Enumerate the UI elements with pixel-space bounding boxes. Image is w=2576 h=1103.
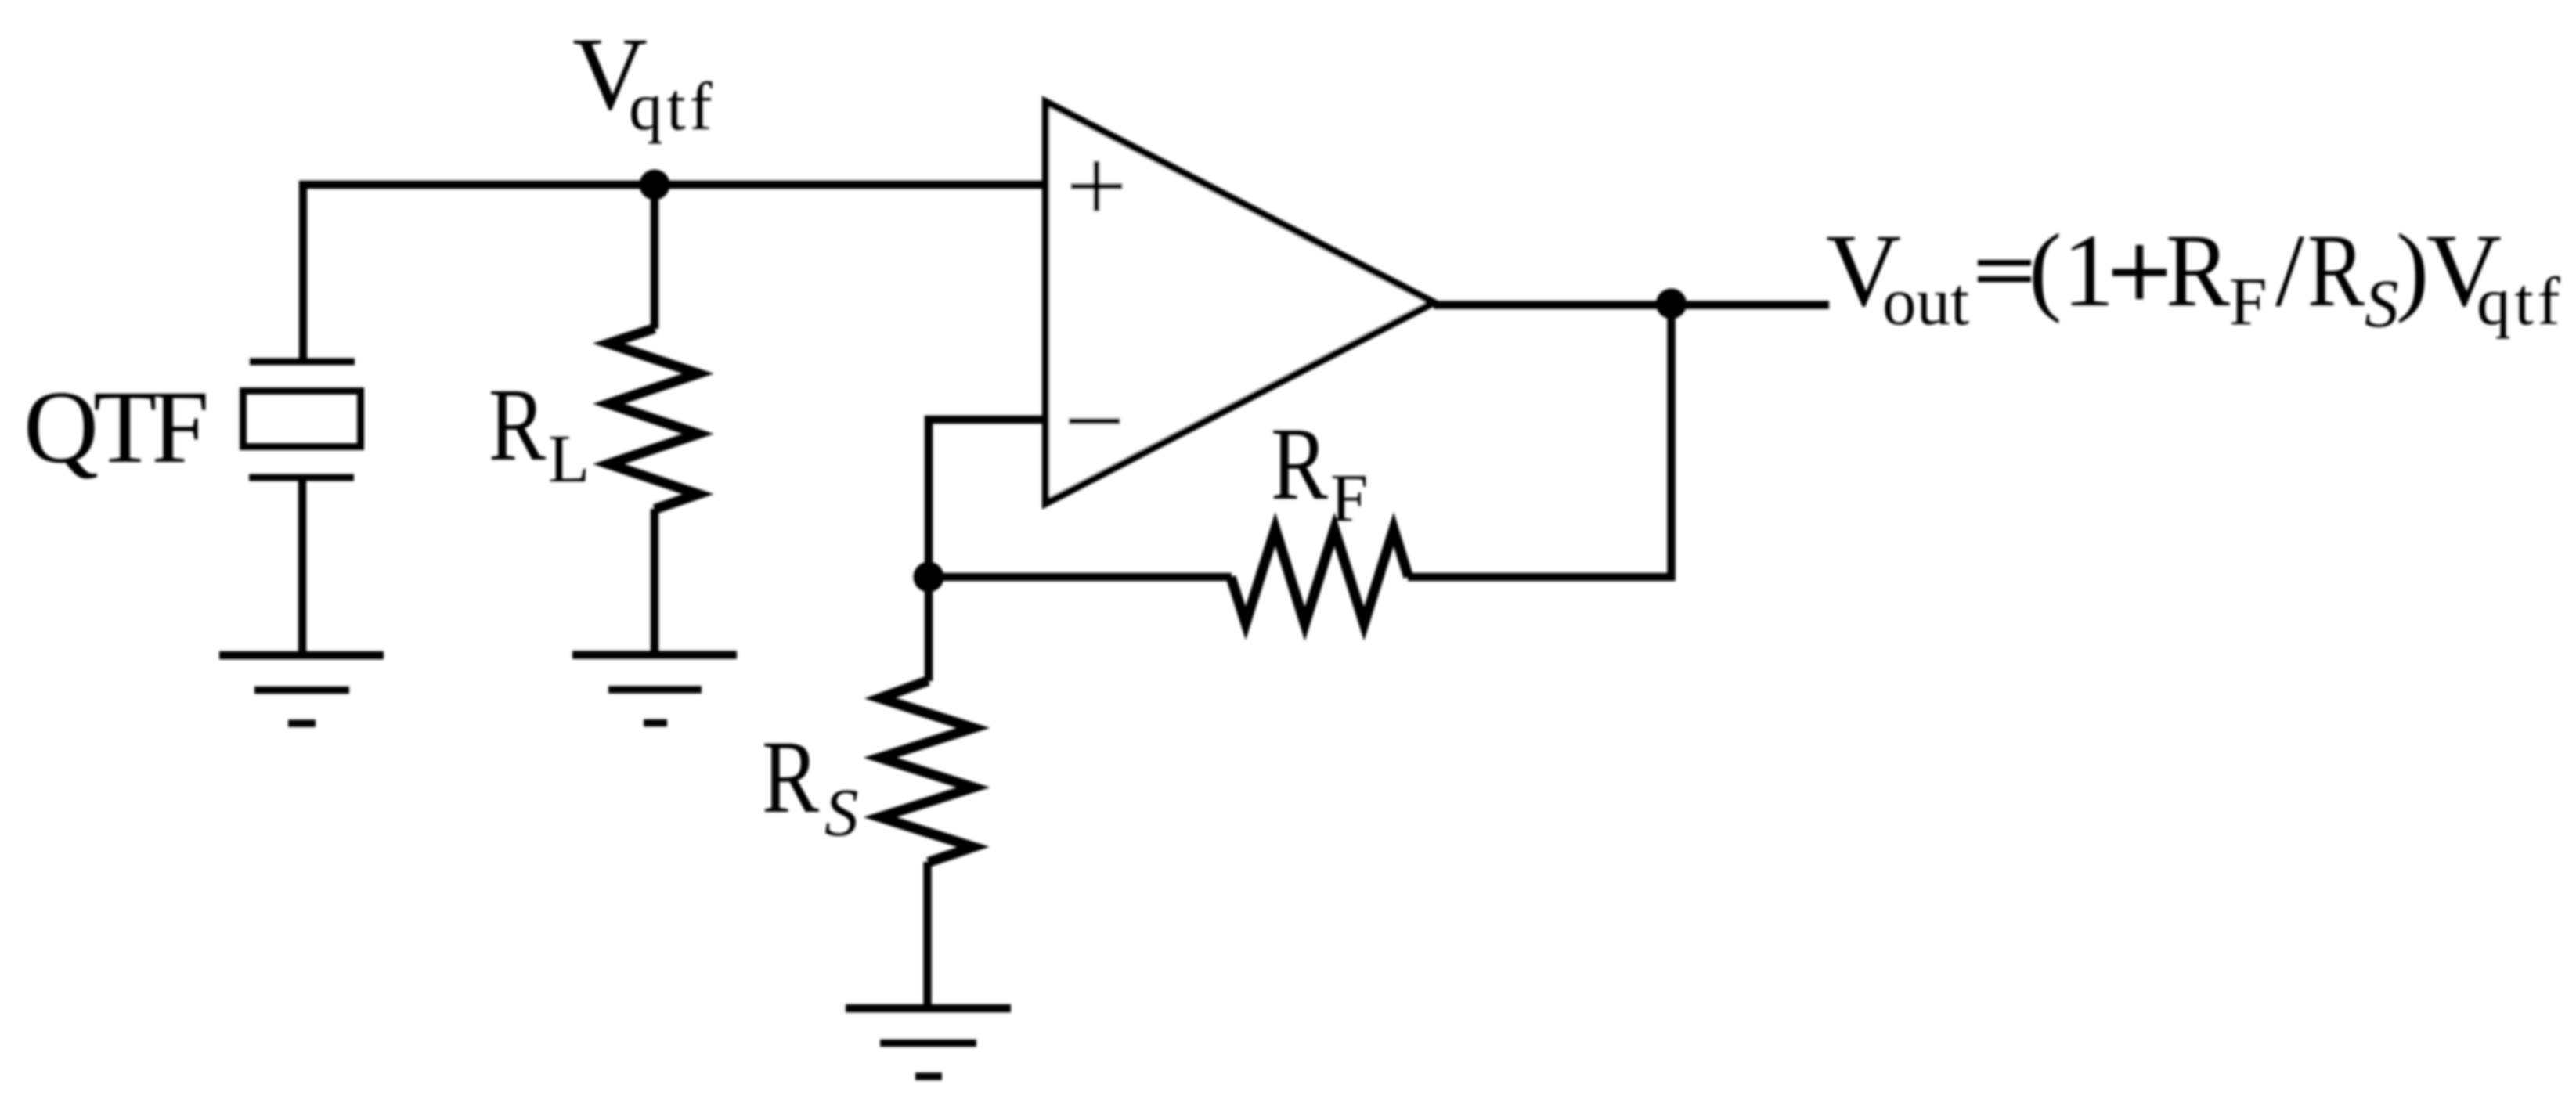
svg-text:): ): [2396, 214, 2429, 324]
svg-text:R: R: [762, 719, 819, 834]
svg-text:L: L: [548, 420, 590, 496]
svg-text:R: R: [1271, 406, 1328, 521]
svg-text:R: R: [2166, 212, 2230, 328]
svg-text:qtf: qtf: [2477, 263, 2564, 339]
svg-text:(: (: [2029, 214, 2062, 324]
svg-text:F: F: [1330, 460, 1368, 535]
svg-text:F: F: [2229, 263, 2267, 339]
svg-text:QTF: QTF: [23, 369, 206, 485]
svg-text:R: R: [2307, 212, 2365, 328]
svg-text:S: S: [824, 774, 859, 850]
svg-text:1: 1: [2062, 212, 2115, 328]
svg-text:/: /: [2275, 212, 2304, 328]
svg-text:R: R: [489, 366, 546, 482]
svg-text:out: out: [1882, 263, 1969, 339]
svg-text:qtf: qtf: [629, 68, 716, 144]
svg-text:S: S: [2365, 265, 2399, 341]
